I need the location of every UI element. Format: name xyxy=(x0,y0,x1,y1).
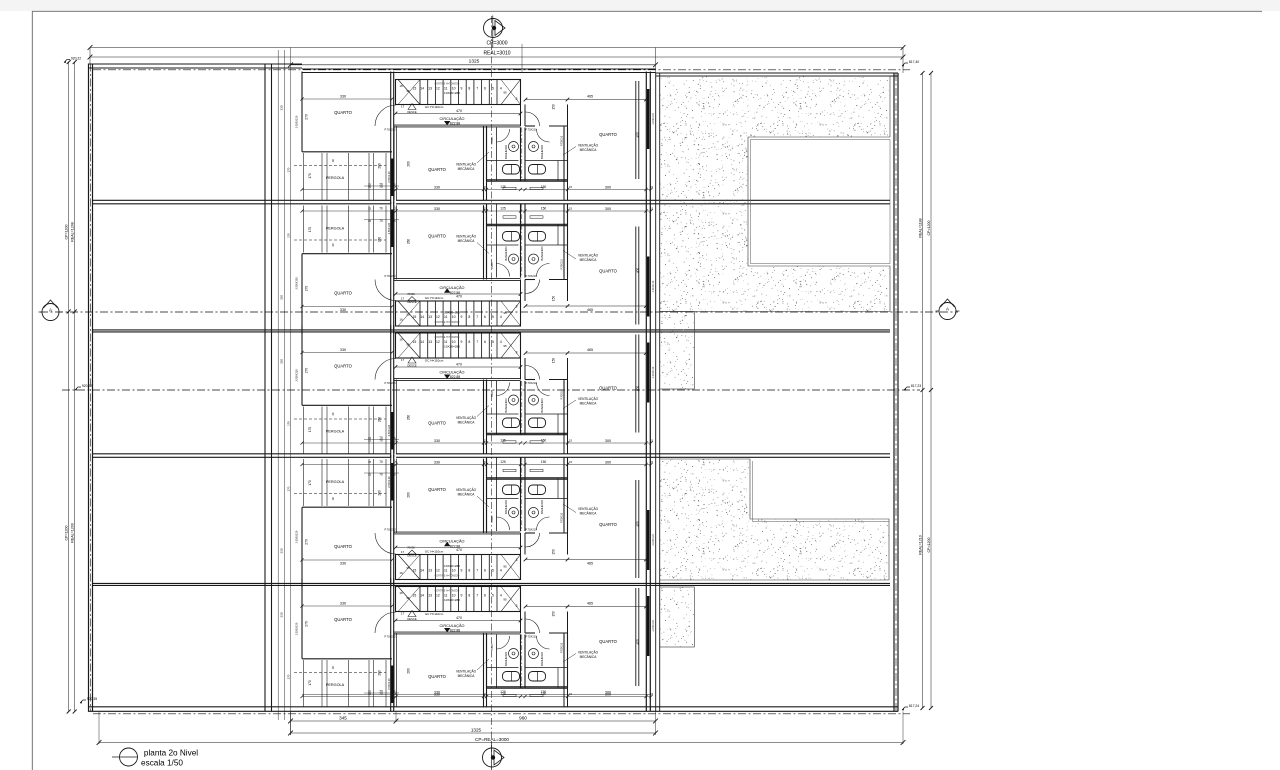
svg-text:MECÂNICA: MECÂNICA xyxy=(580,512,598,516)
svg-text:10X26=280: 10X26=280 xyxy=(444,311,460,315)
svg-text:CIRCULAÇÃO: CIRCULAÇÃO xyxy=(440,285,465,290)
svg-text:10: 10 xyxy=(452,569,456,573)
svg-text:CIRCULAÇÃO: CIRCULAÇÃO xyxy=(440,369,465,374)
svg-text:170: 170 xyxy=(286,486,290,491)
svg-text:3: 3 xyxy=(516,305,518,309)
svg-text:P.70X210: P.70X210 xyxy=(525,634,537,638)
svg-text:4: 4 xyxy=(500,569,502,573)
svg-text:150: 150 xyxy=(541,460,547,464)
svg-text:150: 150 xyxy=(541,207,547,211)
svg-text:BANHEIRO: BANHEIRO xyxy=(540,246,544,260)
svg-text:95: 95 xyxy=(406,343,410,347)
svg-text:260: 260 xyxy=(407,161,411,167)
svg-text:12: 12 xyxy=(436,569,440,573)
svg-text:170: 170 xyxy=(308,680,312,686)
svg-text:170: 170 xyxy=(286,674,290,679)
svg-text:MECÂNICA: MECÂNICA xyxy=(458,493,476,497)
svg-text:P.70X210: P.70X210 xyxy=(525,127,537,131)
svg-text:40: 40 xyxy=(331,159,335,163)
svg-text:CORTINE H=TOMZOR: CORTINE H=TOMZOR xyxy=(435,589,460,592)
svg-text:QUARTO: QUARTO xyxy=(334,364,353,369)
svg-text:150: 150 xyxy=(552,296,556,302)
svg-text:VENTILAÇÃO: VENTILAÇÃO xyxy=(578,143,599,148)
svg-text:CIRCULAÇÃO: CIRCULAÇÃO xyxy=(440,623,465,628)
svg-text:J-240X120: J-240X120 xyxy=(652,620,655,632)
svg-text:920,35: 920,35 xyxy=(87,697,97,701)
svg-text:6: 6 xyxy=(484,340,486,344)
svg-text:QUARTO: QUARTO xyxy=(599,132,618,137)
svg-text:QUARTO: QUARTO xyxy=(334,110,353,115)
svg-text:7: 7 xyxy=(476,315,478,319)
svg-text:P.70X210: P.70X210 xyxy=(525,274,537,278)
svg-text:465: 465 xyxy=(587,348,593,352)
svg-text:CORTINE H=TOMZOR: CORTINE H=TOMZOR xyxy=(435,336,460,339)
svg-text:CORTINE H=TOMZOR: CORTINE H=TOMZOR xyxy=(435,321,460,324)
svg-text:11: 11 xyxy=(444,87,448,91)
svg-text:270: 270 xyxy=(305,621,309,627)
svg-text:PERGOLA: PERGOLA xyxy=(326,429,345,433)
svg-text:170: 170 xyxy=(308,480,312,486)
svg-text:13: 13 xyxy=(428,594,432,598)
svg-text:17: 17 xyxy=(401,297,405,301)
svg-text:400: 400 xyxy=(636,386,640,392)
svg-text:10X26=280: 10X26=280 xyxy=(444,91,460,95)
svg-text:PROF.: PROF. xyxy=(491,136,494,143)
svg-text:70: 70 xyxy=(379,473,383,477)
svg-text:4: 4 xyxy=(500,594,502,598)
svg-text:QUARTO: QUARTO xyxy=(428,167,447,172)
svg-text:MECÂNICA: MECÂNICA xyxy=(458,421,476,425)
svg-text:14: 14 xyxy=(420,87,424,91)
svg-text:5: 5 xyxy=(492,315,494,319)
svg-text:J-250X120: J-250X120 xyxy=(294,115,298,128)
svg-text:15: 15 xyxy=(413,569,417,573)
svg-text:330: 330 xyxy=(434,690,440,694)
svg-text:DESCE: DESCE xyxy=(407,554,416,558)
svg-text:CORTINE H=TOMZOR: CORTINE H=TOMZOR xyxy=(435,574,460,577)
svg-text:17: 17 xyxy=(401,550,405,554)
svg-text:330: 330 xyxy=(434,185,440,189)
svg-text:J-250X120: J-250X120 xyxy=(294,622,298,635)
svg-text:QUARTO: QUARTO xyxy=(599,639,618,644)
svg-text:BANHEIRO: BANHEIRO xyxy=(540,145,544,159)
svg-text:J-250X120: J-250X120 xyxy=(294,277,298,290)
svg-text:400: 400 xyxy=(636,521,640,527)
svg-text:REAL=1210: REAL=1210 xyxy=(919,535,923,554)
svg-text:MECÂNICA: MECÂNICA xyxy=(458,674,476,678)
svg-text:465: 465 xyxy=(587,94,593,98)
svg-text:QUARTO: QUARTO xyxy=(334,544,353,549)
svg-text:P.70X210: P.70X210 xyxy=(560,512,563,523)
svg-text:960: 960 xyxy=(519,716,527,721)
svg-text:7: 7 xyxy=(476,87,478,91)
svg-text:260: 260 xyxy=(407,415,411,421)
svg-text:J-250X120: J-250X120 xyxy=(294,530,298,543)
svg-text:822,88: 822,88 xyxy=(450,291,460,295)
svg-text:17: 17 xyxy=(401,105,405,109)
svg-text:11: 11 xyxy=(444,340,448,344)
svg-text:125: 125 xyxy=(500,690,506,694)
svg-text:16: 16 xyxy=(399,571,403,575)
svg-text:270: 270 xyxy=(305,368,309,374)
svg-text:95: 95 xyxy=(406,566,410,570)
svg-text:125: 125 xyxy=(500,207,506,211)
svg-text:150: 150 xyxy=(552,611,556,617)
svg-text:11: 11 xyxy=(444,594,448,598)
svg-text:BANHEIRO: BANHEIRO xyxy=(540,398,544,412)
svg-text:PROF.: PROF. xyxy=(491,390,494,397)
svg-text:10: 10 xyxy=(452,87,456,91)
svg-text:VENTILAÇÃO: VENTILAÇÃO xyxy=(578,253,599,258)
svg-text:4: 4 xyxy=(500,87,502,91)
svg-text:J-240X120: J-240X120 xyxy=(652,534,655,546)
svg-text:125: 125 xyxy=(500,460,506,464)
svg-text:170: 170 xyxy=(308,427,312,433)
svg-text:260: 260 xyxy=(378,237,382,243)
svg-text:330: 330 xyxy=(280,105,284,110)
svg-text:10: 10 xyxy=(452,340,456,344)
svg-text:14: 14 xyxy=(420,594,424,598)
svg-text:REAL=1208: REAL=1208 xyxy=(71,222,75,241)
svg-text:817,24: 817,24 xyxy=(909,704,919,708)
svg-text:MECÂNICA: MECÂNICA xyxy=(580,655,598,659)
svg-text:170: 170 xyxy=(286,421,290,426)
svg-text:escala 1/50: escala 1/50 xyxy=(141,759,183,768)
svg-text:270: 270 xyxy=(305,539,309,545)
svg-text:95: 95 xyxy=(503,311,507,315)
svg-text:300: 300 xyxy=(605,207,611,211)
svg-text:13: 13 xyxy=(428,315,432,319)
svg-text:8: 8 xyxy=(468,594,470,598)
svg-text:3: 3 xyxy=(516,351,518,355)
svg-text:150: 150 xyxy=(552,358,556,364)
svg-text:1325: 1325 xyxy=(471,728,482,733)
svg-text:10X26=280: 10X26=280 xyxy=(444,564,460,568)
svg-text:GC H=110cm: GC H=110cm xyxy=(425,296,444,300)
svg-text:330: 330 xyxy=(280,359,284,364)
svg-text:4: 4 xyxy=(500,340,502,344)
svg-text:BANHEIRO: BANHEIRO xyxy=(504,246,508,260)
svg-text:VENTILAÇÃO: VENTILAÇÃO xyxy=(578,396,599,401)
svg-text:260: 260 xyxy=(378,163,382,169)
svg-text:330: 330 xyxy=(340,94,346,98)
svg-text:3: 3 xyxy=(516,558,518,562)
svg-text:J-240X120: J-240X120 xyxy=(652,113,655,125)
svg-text:9: 9 xyxy=(461,87,463,91)
svg-text:95: 95 xyxy=(503,565,507,569)
svg-text:95: 95 xyxy=(503,598,507,602)
svg-text:16: 16 xyxy=(399,338,403,342)
svg-text:P.70X210: P.70X210 xyxy=(560,135,563,146)
svg-text:95: 95 xyxy=(503,344,507,348)
svg-text:J-240X120: J-240X120 xyxy=(652,366,655,378)
svg-text:VENTILAÇÃO: VENTILAÇÃO xyxy=(456,415,477,420)
svg-text:MECÂNICA: MECÂNICA xyxy=(458,167,476,171)
svg-text:15: 15 xyxy=(569,185,573,189)
svg-text:260: 260 xyxy=(378,490,382,496)
svg-text:5: 5 xyxy=(492,569,494,573)
svg-text:400: 400 xyxy=(636,268,640,274)
svg-text:15: 15 xyxy=(569,207,573,211)
svg-text:817,40: 817,40 xyxy=(909,60,919,64)
svg-text:300: 300 xyxy=(605,460,611,464)
svg-text:11: 11 xyxy=(444,569,448,573)
svg-text:465: 465 xyxy=(587,561,593,565)
svg-text:330: 330 xyxy=(340,561,346,565)
svg-text:CP=1200: CP=1200 xyxy=(64,224,68,239)
svg-text:95: 95 xyxy=(406,89,410,93)
svg-text:330: 330 xyxy=(280,295,284,300)
svg-text:330: 330 xyxy=(340,601,346,605)
svg-text:GC H=110cm: GC H=110cm xyxy=(425,105,444,109)
svg-text:CP=1200: CP=1200 xyxy=(927,220,931,235)
svg-text:VENTILAÇÃO: VENTILAÇÃO xyxy=(578,650,599,655)
svg-text:BANHEIRO: BANHEIRO xyxy=(504,145,508,159)
svg-text:170: 170 xyxy=(286,167,290,172)
svg-text:QUARTO: QUARTO xyxy=(599,522,618,527)
svg-text:VENTILAÇÃO: VENTILAÇÃO xyxy=(578,506,599,511)
svg-text:QUARTO: QUARTO xyxy=(428,487,447,492)
svg-text:J-250X120: J-250X120 xyxy=(294,369,298,382)
svg-text:7: 7 xyxy=(476,569,478,573)
svg-text:VENTILAÇÃO: VENTILAÇÃO xyxy=(456,234,477,239)
svg-text:13: 13 xyxy=(428,569,432,573)
svg-text:12: 12 xyxy=(436,315,440,319)
svg-text:6: 6 xyxy=(484,569,486,573)
svg-text:PROF.: PROF. xyxy=(491,643,494,650)
svg-text:14: 14 xyxy=(420,315,424,319)
svg-text:BANHEIRO: BANHEIRO xyxy=(540,652,544,666)
svg-text:13: 13 xyxy=(428,87,432,91)
svg-text:5: 5 xyxy=(492,87,494,91)
svg-text:REAL=1188: REAL=1188 xyxy=(919,218,923,237)
svg-text:12: 12 xyxy=(436,87,440,91)
svg-text:15: 15 xyxy=(569,460,573,464)
svg-text:A: A xyxy=(946,307,949,312)
svg-text:7: 7 xyxy=(476,594,478,598)
svg-text:150: 150 xyxy=(552,104,556,110)
svg-text:CORTINE H=TOMZOR: CORTINE H=TOMZOR xyxy=(435,82,460,85)
svg-text:15: 15 xyxy=(413,340,417,344)
svg-text:15: 15 xyxy=(368,207,372,211)
svg-text:12: 12 xyxy=(436,594,440,598)
svg-text:8: 8 xyxy=(468,340,470,344)
svg-text:8: 8 xyxy=(468,569,470,573)
svg-text:QUARTO: QUARTO xyxy=(428,421,447,426)
svg-text:330: 330 xyxy=(280,548,284,553)
svg-text:330: 330 xyxy=(340,308,346,312)
svg-text:1325: 1325 xyxy=(469,59,480,65)
svg-text:GC H=110cm: GC H=110cm xyxy=(425,359,444,363)
svg-text:400: 400 xyxy=(636,639,640,645)
svg-text:270: 270 xyxy=(305,286,309,292)
svg-text:PERGOLA: PERGOLA xyxy=(326,176,345,180)
svg-text:150: 150 xyxy=(541,690,547,694)
svg-text:CP=3000: CP=3000 xyxy=(487,40,508,46)
svg-text:4: 4 xyxy=(500,315,502,319)
svg-text:VENTILAÇÃO: VENTILAÇÃO xyxy=(456,162,477,167)
svg-text:465: 465 xyxy=(587,601,593,605)
svg-text:10X26=280: 10X26=280 xyxy=(444,598,460,602)
svg-text:260: 260 xyxy=(378,417,382,423)
svg-text:16: 16 xyxy=(399,318,403,322)
svg-text:40: 40 xyxy=(331,243,335,247)
svg-text:300: 300 xyxy=(605,690,611,694)
svg-text:11: 11 xyxy=(444,315,448,319)
svg-text:MECÂNICA: MECÂNICA xyxy=(580,148,598,152)
svg-text:VENTILAÇÃO: VENTILAÇÃO xyxy=(456,487,477,492)
svg-text:MECÂNICA: MECÂNICA xyxy=(580,258,598,262)
svg-text:40: 40 xyxy=(331,412,335,416)
svg-text:16: 16 xyxy=(399,84,403,88)
svg-text:BANHEIRO: BANHEIRO xyxy=(540,500,544,514)
svg-text:P.70X210: P.70X210 xyxy=(525,381,537,385)
svg-text:95: 95 xyxy=(406,313,410,317)
svg-text:P.70X210: P.70X210 xyxy=(560,259,563,270)
svg-text:3: 3 xyxy=(516,604,518,608)
svg-text:170: 170 xyxy=(308,227,312,233)
svg-text:PERGOLA: PERGOLA xyxy=(326,480,345,484)
svg-text:QUARTO: QUARTO xyxy=(334,617,353,622)
svg-text:QUARTO: QUARTO xyxy=(599,269,618,274)
svg-text:12: 12 xyxy=(436,340,440,344)
svg-text:PERGOLA: PERGOLA xyxy=(326,683,345,687)
svg-text:920,22: 920,22 xyxy=(82,384,92,388)
svg-text:16: 16 xyxy=(399,591,403,595)
svg-text:170: 170 xyxy=(286,233,290,238)
svg-text:QUARTO: QUARTO xyxy=(428,674,447,679)
svg-text:QUARTO: QUARTO xyxy=(428,234,447,239)
svg-text:15: 15 xyxy=(413,594,417,598)
svg-text:470: 470 xyxy=(456,362,462,366)
svg-text:CIRCULAÇÃO: CIRCULAÇÃO xyxy=(440,116,465,121)
svg-text:15: 15 xyxy=(413,315,417,319)
svg-text:70: 70 xyxy=(379,207,383,211)
svg-text:REAL=1200: REAL=1200 xyxy=(71,523,75,542)
svg-text:CP=REAL=3000: CP=REAL=3000 xyxy=(475,737,509,742)
svg-text:260: 260 xyxy=(407,492,411,498)
svg-text:40: 40 xyxy=(331,666,335,670)
svg-text:260: 260 xyxy=(407,239,411,245)
svg-text:6: 6 xyxy=(484,594,486,598)
svg-text:13: 13 xyxy=(428,340,432,344)
svg-text:VENTILAÇÃO: VENTILAÇÃO xyxy=(456,669,477,674)
svg-text:PROF.: PROF. xyxy=(491,515,494,522)
svg-text:330: 330 xyxy=(434,207,440,211)
svg-text:PERGOLA: PERGOLA xyxy=(326,226,345,230)
svg-text:QUARTO: QUARTO xyxy=(599,386,618,391)
svg-text:345: 345 xyxy=(339,716,347,721)
svg-text:170: 170 xyxy=(308,173,312,179)
svg-text:REAL=3010: REAL=3010 xyxy=(483,51,510,57)
svg-text:330: 330 xyxy=(280,612,284,617)
svg-text:CP=1200: CP=1200 xyxy=(927,537,931,552)
svg-text:17: 17 xyxy=(401,612,405,616)
svg-text:10: 10 xyxy=(452,594,456,598)
svg-text:470: 470 xyxy=(456,109,462,113)
svg-text:822,88: 822,88 xyxy=(450,544,460,548)
svg-text:A: A xyxy=(49,308,52,313)
svg-text:330: 330 xyxy=(434,460,440,464)
svg-text:CIRCULAÇÃO: CIRCULAÇÃO xyxy=(440,538,465,543)
svg-text:70: 70 xyxy=(379,460,383,464)
svg-text:DESCE: DESCE xyxy=(407,300,416,304)
svg-text:14: 14 xyxy=(420,340,424,344)
svg-text:465: 465 xyxy=(587,308,593,312)
svg-text:PROF.: PROF. xyxy=(491,262,494,269)
svg-text:70: 70 xyxy=(379,219,383,223)
svg-text:40: 40 xyxy=(331,497,335,501)
svg-text:300: 300 xyxy=(605,439,611,443)
svg-text:95: 95 xyxy=(406,596,410,600)
svg-text:3: 3 xyxy=(516,97,518,101)
svg-text:5: 5 xyxy=(492,340,494,344)
svg-text:270: 270 xyxy=(305,114,309,120)
svg-text:MECÂNICA: MECÂNICA xyxy=(458,239,476,243)
svg-text:400: 400 xyxy=(636,132,640,138)
svg-text:planta 2o Nivel: planta 2o Nivel xyxy=(144,749,198,758)
svg-text:GC H=110cm: GC H=110cm xyxy=(425,612,444,616)
svg-text:P.70X210: P.70X210 xyxy=(560,389,563,400)
svg-text:14: 14 xyxy=(420,569,424,573)
svg-text:300: 300 xyxy=(605,185,611,189)
svg-text:15: 15 xyxy=(368,460,372,464)
svg-text:260: 260 xyxy=(378,670,382,676)
svg-text:9: 9 xyxy=(461,315,463,319)
svg-text:150: 150 xyxy=(552,549,556,555)
svg-text:BANHEIRO: BANHEIRO xyxy=(504,398,508,412)
svg-text:QUARTO: QUARTO xyxy=(334,291,353,296)
svg-text:817,23: 817,23 xyxy=(911,384,921,388)
svg-text:8: 8 xyxy=(468,315,470,319)
svg-text:6: 6 xyxy=(484,315,486,319)
svg-text:15: 15 xyxy=(569,439,573,443)
svg-text:9: 9 xyxy=(461,569,463,573)
svg-text:MECÂNICA: MECÂNICA xyxy=(580,402,598,406)
svg-text:P.70X210: P.70X210 xyxy=(525,527,537,531)
svg-text:9: 9 xyxy=(461,594,463,598)
svg-text:7: 7 xyxy=(476,340,478,344)
svg-text:15: 15 xyxy=(413,87,417,91)
svg-text:P.70X210: P.70X210 xyxy=(560,642,563,653)
svg-text:BANHEIRO: BANHEIRO xyxy=(504,652,508,666)
svg-text:8: 8 xyxy=(468,87,470,91)
svg-text:17: 17 xyxy=(401,358,405,362)
svg-text:10X26=280: 10X26=280 xyxy=(444,345,460,349)
svg-text:95: 95 xyxy=(503,91,507,95)
svg-text:6: 6 xyxy=(484,87,486,91)
svg-text:10: 10 xyxy=(452,315,456,319)
svg-text:CP=1200: CP=1200 xyxy=(64,525,68,540)
svg-text:9: 9 xyxy=(461,340,463,344)
svg-text:5: 5 xyxy=(492,594,494,598)
svg-text:330: 330 xyxy=(434,439,440,443)
svg-text:15: 15 xyxy=(569,692,573,696)
svg-text:470: 470 xyxy=(456,616,462,620)
svg-text:330: 330 xyxy=(340,348,346,352)
svg-text:J-240X120: J-240X120 xyxy=(652,280,655,292)
svg-text:260: 260 xyxy=(407,668,411,674)
svg-text:BANHEIRO: BANHEIRO xyxy=(504,500,508,514)
svg-text:GC H=110cm: GC H=110cm xyxy=(425,550,444,554)
